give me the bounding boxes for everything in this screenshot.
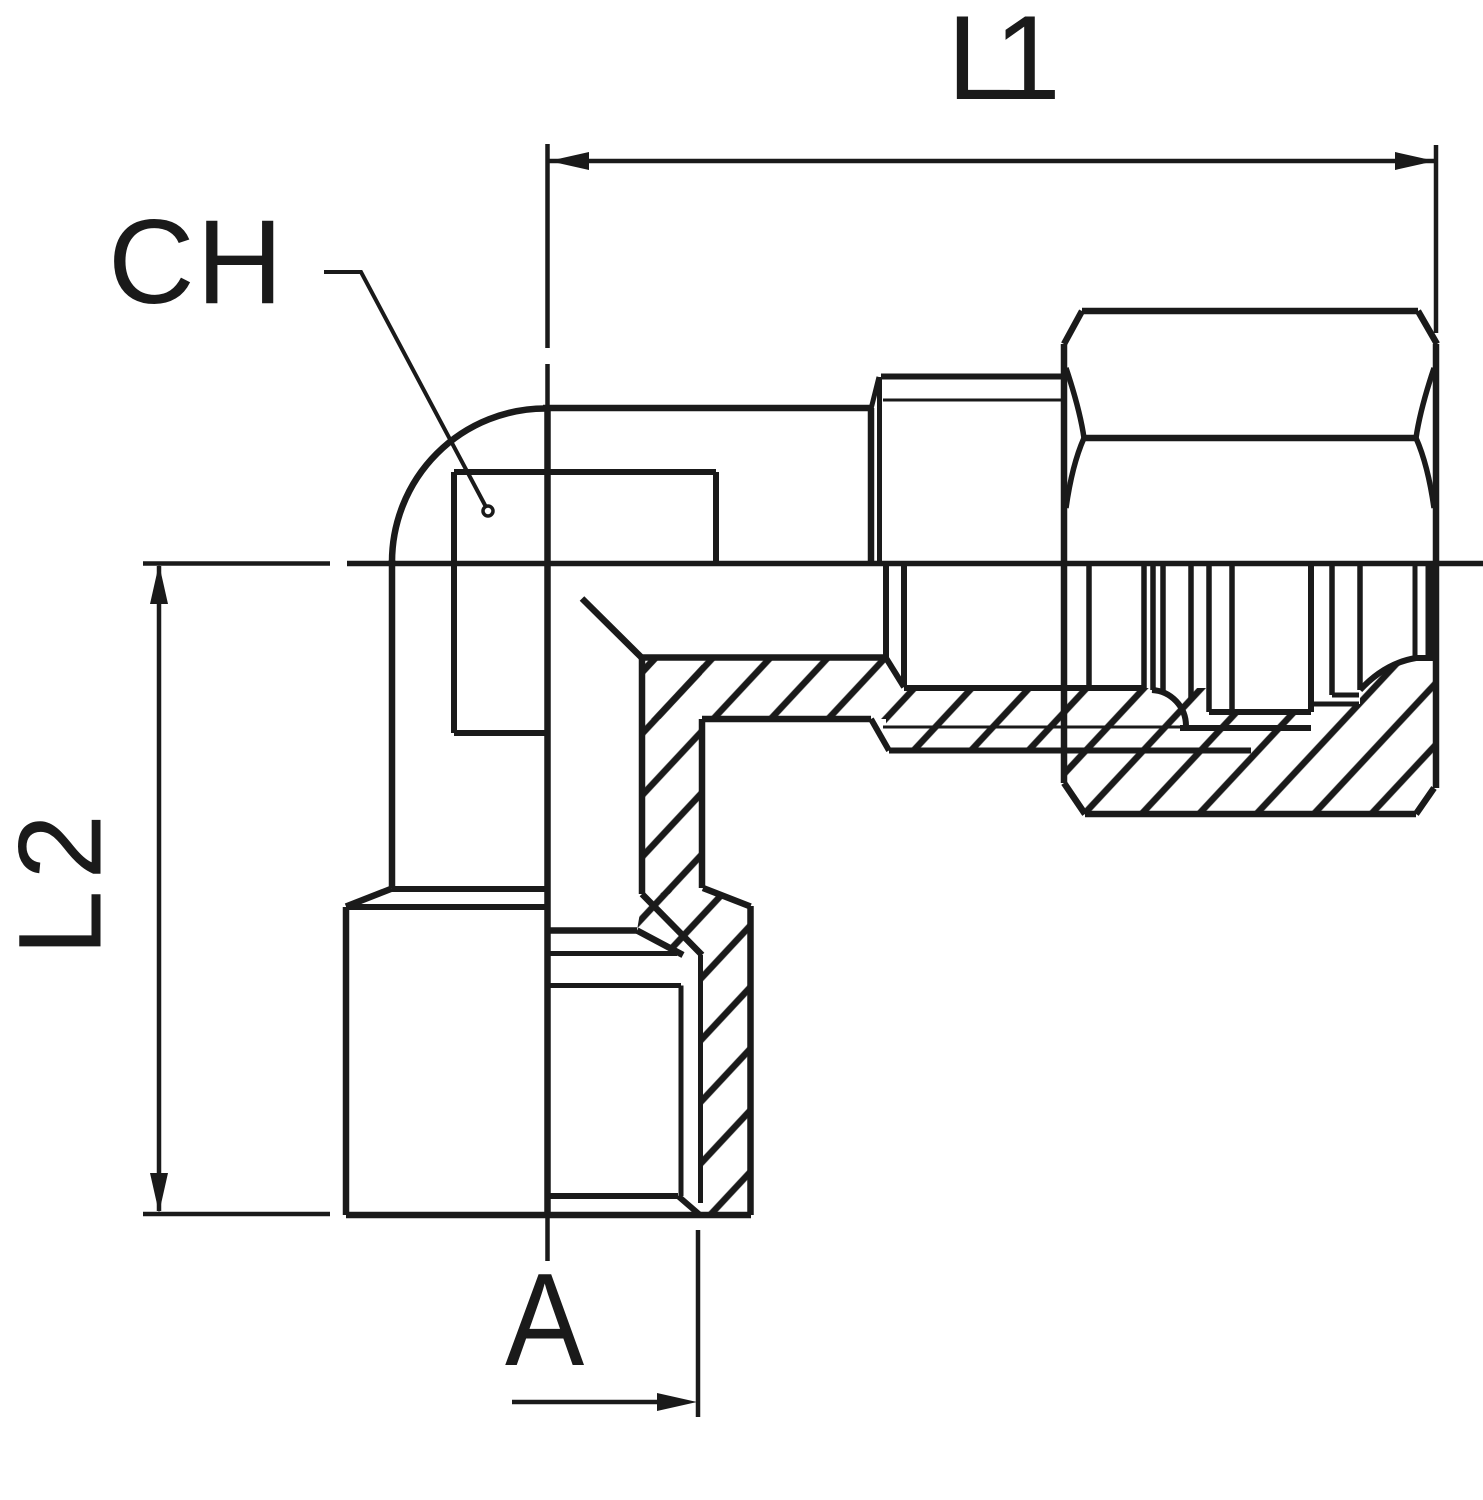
body end face below axis bbox=[883, 563, 889, 658]
nut back short edge b bbox=[1426, 565, 1431, 658]
arrowhead A right bbox=[657, 1393, 697, 1411]
leader circle marker bbox=[483, 506, 493, 516]
CH flat bottom edge bbox=[454, 730, 545, 736]
socket hex left edge bbox=[343, 907, 350, 1215]
thread start chamfer above axis bbox=[871, 377, 879, 409]
dimension line A bbox=[512, 1400, 660, 1405]
nut end inner edge a bbox=[1329, 563, 1335, 695]
counterbore line bbox=[904, 685, 1144, 691]
socket counterbore line bbox=[548, 951, 677, 956]
socket thread major edge bbox=[698, 955, 703, 1203]
vertical wall right edge bbox=[699, 719, 706, 888]
hatch socket chamfer wedge bbox=[637, 888, 751, 955]
seat mouth edge bbox=[901, 563, 907, 687]
centerline vertical axis upper bbox=[545, 364, 550, 408]
hatch male thread step bbox=[886, 658, 904, 751]
thread crest line below axis bbox=[889, 748, 1251, 754]
svg-text:CH: CH bbox=[108, 195, 283, 329]
nut hex face line bbox=[1084, 435, 1416, 442]
svg-text:1: 1 bbox=[994, 0, 1061, 125]
extension line L2 bottom bbox=[143, 1212, 330, 1217]
centerline vertical axis through part bbox=[544, 408, 551, 1215]
socket chamfer cone edge upper bbox=[392, 886, 548, 892]
hatch nut lower wall bbox=[1064, 658, 1436, 814]
thread crest line above axis bbox=[881, 374, 1064, 380]
dimension line L2 bbox=[157, 566, 162, 1211]
seat cone bevel bbox=[886, 658, 904, 687]
centerline horizontal axis bbox=[347, 561, 1483, 567]
nut bottom edge bbox=[1085, 811, 1416, 818]
thread root line below axis bbox=[883, 726, 1180, 729]
leader line CH tick bbox=[324, 272, 486, 507]
elbow outer corner arc bbox=[392, 409, 546, 563]
nut hex corner arc lower-right bbox=[1416, 438, 1434, 508]
nut end inner step bbox=[1332, 693, 1359, 698]
socket thread start line bbox=[548, 983, 681, 988]
nut top edge bbox=[1082, 308, 1418, 315]
bore line lower bbox=[642, 654, 886, 661]
nut bottom-right chamfer bbox=[1416, 788, 1434, 814]
socket shoulder line bbox=[548, 927, 637, 934]
nut end inner edge b bbox=[1357, 563, 1363, 690]
extension line L2 top bbox=[143, 561, 330, 566]
nut end inner step b bbox=[1311, 702, 1359, 707]
nut bore line bbox=[1209, 709, 1311, 715]
socket chamfer cone edge lower bbox=[346, 904, 548, 910]
ferrule back curve bbox=[1152, 690, 1186, 726]
ferrule outer edge bbox=[1188, 563, 1194, 701]
nut right edge bbox=[1433, 344, 1440, 788]
socket bottom opening bevel bbox=[678, 1196, 700, 1215]
socket right outer edge bbox=[747, 906, 754, 1215]
elbow body left edge bbox=[389, 560, 396, 888]
socket bottom edge bbox=[346, 1212, 751, 1219]
nut back relief curve bbox=[1360, 658, 1416, 690]
extension line L1 left bbox=[545, 144, 550, 348]
arrowhead L2 bottom bbox=[150, 1173, 168, 1213]
nut top-right chamfer bbox=[1418, 311, 1437, 344]
thread start chamfer below axis bbox=[871, 719, 889, 751]
hatch socket right wall bbox=[678, 955, 751, 1215]
socket bottom inner line bbox=[550, 1193, 678, 1199]
boss end vertical above axis bbox=[877, 377, 882, 563]
ferrule back edge bbox=[1206, 563, 1212, 712]
tube hole edge bbox=[1229, 563, 1235, 709]
nut bottom-left chamfer bbox=[1064, 783, 1085, 814]
nut back top line bbox=[1416, 655, 1436, 661]
nut shoulder edge bbox=[1308, 563, 1314, 712]
socket chamfer cone diagonal left bbox=[346, 889, 392, 907]
arm outer surface below axis bbox=[702, 716, 871, 723]
vertical wall left edge bbox=[639, 658, 646, 894]
nut internal edge a bbox=[1086, 563, 1092, 690]
centerline vertical axis lower bbox=[545, 1215, 550, 1261]
svg-text:A: A bbox=[505, 1245, 584, 1393]
wall flare bevel bbox=[642, 894, 702, 955]
socket shoulder bevel bbox=[637, 931, 683, 956]
dimension line L1 bbox=[549, 159, 1435, 164]
arrowhead L2 top bbox=[150, 564, 168, 604]
socket thread minor edge bbox=[679, 986, 684, 1197]
CH flat left edge bbox=[451, 472, 457, 733]
hatch horizontal arm wall bbox=[642, 658, 886, 719]
body end face bbox=[868, 408, 875, 563]
hatch thread engagement band bbox=[904, 688, 1206, 751]
thread root line above axis bbox=[883, 399, 1064, 402]
inner bore corner bevel bbox=[582, 599, 642, 659]
hatch vertical arm wall bbox=[642, 658, 702, 894]
nut back short edge a bbox=[1413, 565, 1418, 658]
arrowhead L1 left bbox=[549, 152, 589, 170]
socket right chamfer bevel bbox=[703, 888, 751, 907]
ferrule front edge bbox=[1141, 563, 1147, 688]
CH flat top edge bbox=[454, 469, 716, 475]
nut back short edge c bbox=[1431, 565, 1436, 658]
extension line L1 right bbox=[1434, 145, 1439, 333]
nut left edge bbox=[1061, 344, 1068, 783]
arrowhead L1 right bbox=[1395, 152, 1435, 170]
ferrule base line bbox=[1180, 725, 1311, 731]
ferrule middle edge bbox=[1160, 563, 1166, 692]
nut hex corner arc upper-right bbox=[1416, 368, 1434, 438]
nut hex corner arc lower-left bbox=[1066, 438, 1084, 508]
nut top-left chamfer bbox=[1064, 311, 1082, 344]
CH flat right edge bbox=[713, 472, 719, 563]
nut hex corner arc upper-left bbox=[1066, 368, 1084, 438]
extension line A right bbox=[696, 1230, 701, 1417]
elbow body top edge bbox=[543, 405, 871, 412]
ferrule inner edge bbox=[1150, 563, 1156, 690]
